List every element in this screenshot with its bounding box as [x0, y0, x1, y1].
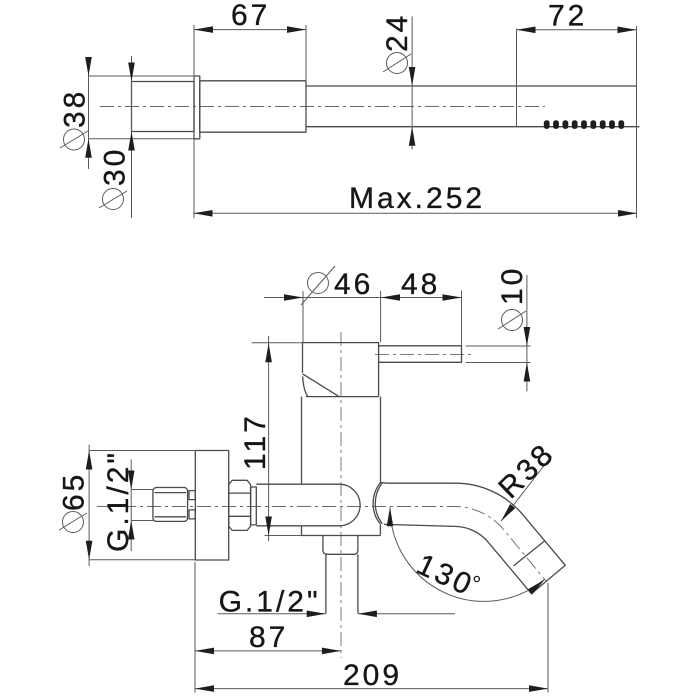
svg-text:209: 209 [343, 659, 402, 692]
handle joint line [516, 29, 518, 127]
svg-text:10: 10 [496, 266, 529, 305]
bottom tailpiece tube [326, 554, 358, 613]
svg-text:48: 48 [401, 268, 440, 301]
dimension 72 [517, 0, 637, 218]
dimension diameter 38 [59, 57, 195, 169]
nut neck collar [251, 487, 257, 525]
svg-text:38: 38 [59, 89, 92, 128]
lever rod [379, 346, 462, 363]
svg-text:G.1/2": G.1/2" [102, 450, 135, 552]
centerline mixer body vertical [340, 332, 342, 658]
hand shower grip section [200, 81, 306, 132]
dimension G 1/2 left [102, 450, 153, 552]
svg-text:67: 67 [231, 0, 270, 32]
dimension 67 [194, 0, 306, 218]
hex nut [229, 480, 251, 530]
hand shower collar ring [194, 76, 200, 139]
centerline wall connection axis + spout [97, 507, 546, 582]
wall boss cylinder [256, 484, 360, 526]
dimension G 1/2 bottom [218, 585, 455, 618]
dimension diameter 24 [381, 13, 415, 150]
svg-text:72: 72 [548, 0, 587, 33]
bottom port step [323, 536, 358, 555]
dimension 209 [195, 583, 548, 693]
dimension angle 130 [387, 507, 547, 603]
threaded nipple G 1/2 [153, 488, 188, 522]
dimension 87 [195, 562, 341, 693]
centerline hand shower axis [100, 106, 545, 108]
svg-text:Max.252: Max.252 [349, 182, 485, 215]
mixer handle cap [303, 343, 379, 397]
dimension R38 [492, 437, 561, 523]
flange groove collar [189, 491, 195, 519]
mixer body [302, 397, 381, 536]
dimension diameter 65 [58, 445, 196, 566]
hand shower handle tube [306, 86, 640, 127]
dimension diameter 46 and 48 [264, 266, 462, 346]
centerline lever rod [375, 353, 471, 355]
dimension diameter 10 [466, 266, 531, 392]
hand shower head body [132, 82, 195, 132]
svg-text:24: 24 [381, 13, 414, 52]
dimension diameter 30 [99, 56, 135, 218]
dimension 117 [239, 336, 303, 541]
dimension Max.252 [194, 182, 638, 217]
svg-text:87: 87 [249, 621, 288, 654]
spout [373, 483, 565, 594]
svg-text:46: 46 [334, 268, 373, 301]
svg-text:30: 30 [99, 147, 132, 186]
svg-text:117: 117 [239, 413, 272, 470]
spray nozzle dots [544, 120, 624, 129]
svg-text:65: 65 [58, 472, 91, 511]
wall flange [195, 451, 228, 561]
